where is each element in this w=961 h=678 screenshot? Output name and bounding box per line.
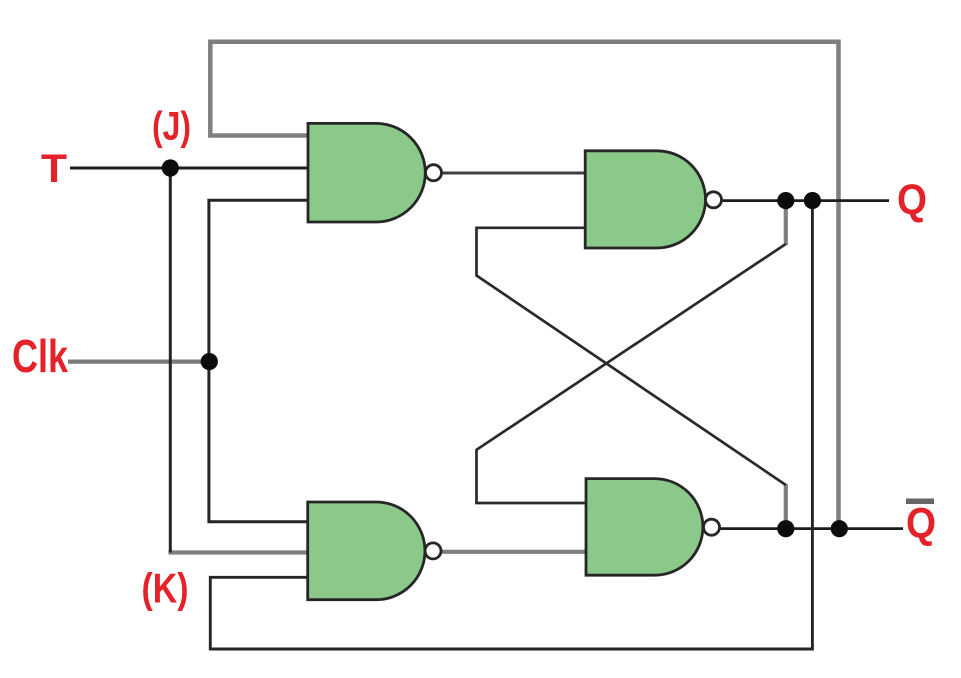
svg-text:(J): (J) — [152, 105, 191, 149]
node: Qbar dot 2 — [831, 520, 848, 537]
wire: Q feedback drop + bottom rail + K elbow to gate3 bottom input — [210, 201, 812, 649]
svg-text:Q: Q — [906, 500, 936, 548]
wire: Qbar cross diagonal to gate2 lower input — [477, 228, 786, 485]
node: Clk junction dot — [201, 353, 218, 370]
node: T junction dot — [162, 159, 179, 176]
wire: Q cross diagonal to gate4 upper input — [477, 244, 786, 503]
svg-text:Clk: Clk — [12, 330, 68, 382]
wire: Qbar output line — [719, 527, 903, 530]
wire: Clk riser (gate1 bottom input to gate3 top input) — [209, 200, 310, 522]
wire: T input line — [70, 167, 310, 170]
wire: gate3 output to gate4 lower input — [440, 550, 588, 554]
node: Q dot 1 — [777, 192, 794, 209]
nand gate U1 (top-left, 3-input) — [308, 123, 425, 222]
node: Qbar dot 1 — [777, 520, 794, 537]
wire: Qbar feedback frame (J elbow + top rail + right rail) — [210, 42, 838, 529]
svg-text:Q: Q — [897, 176, 927, 224]
nand gate U4 (bottom-right, 2-input) — [586, 479, 703, 576]
svg-text:T: T — [41, 147, 67, 191]
wire: Q output line — [719, 199, 889, 202]
wire: T to gate3 middle input — [169, 550, 311, 554]
overbar of Qbar — [906, 499, 934, 505]
output bubble U4 — [704, 519, 720, 535]
nand gate U3 (bottom-left, 3-input) — [308, 502, 425, 600]
wire: Clk input line — [68, 360, 209, 364]
wire: gate1 output to gate2 upper input — [440, 172, 588, 175]
output bubble U2 — [706, 192, 722, 208]
wire: T drop vertical — [169, 168, 172, 553]
output bubble U3 — [425, 543, 441, 559]
wire: Q feedback stub (gray, below Q dot1) — [784, 201, 788, 245]
output bubble U1 — [426, 165, 442, 181]
wire: Qbar feedback stub (gray, above Qbar dot1) — [784, 484, 788, 529]
svg-text:(K): (K) — [142, 565, 189, 612]
node: Q dot 2 — [804, 192, 821, 209]
nand gate U2 (top-right, 2-input) — [585, 151, 705, 248]
